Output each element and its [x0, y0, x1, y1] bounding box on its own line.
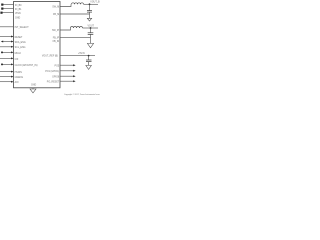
- inductor L2: [71, 27, 83, 28]
- wire NRST: [0, 36, 14, 38]
- wire GNENG: [0, 76, 14, 78]
- svg-text:VOUT_B: VOUT_B: [90, 2, 100, 4]
- svg-text:GND: GND: [15, 18, 20, 20]
- svg-text:AIO: AIO: [15, 81, 19, 84]
- wire cap C2 top: [90, 28, 92, 33]
- svg-text:GNENG: GNENG: [15, 77, 24, 79]
- svg-text:SCL_ENG: SCL_ENG: [15, 47, 26, 49]
- wire PO1: [60, 70, 76, 72]
- svg-text:CLKIN (GPIO/INT_IN): CLKIN (GPIO/INT_IN): [15, 65, 38, 67]
- svg-text:CIF: CIF: [15, 59, 19, 61]
- svg-text:+5V/N: +5V/N: [78, 53, 85, 55]
- wire BCLK: [0, 57, 14, 59]
- node VOUT: [90, 27, 92, 29]
- wire C3 to ground: [88, 62, 90, 66]
- wire GND stem: [32, 88, 34, 89]
- svg-text:FB_IN: FB_IN: [53, 41, 60, 43]
- ground G4: [30, 89, 36, 93]
- ground G1: [87, 18, 91, 21]
- svg-text:SW_M: SW_M: [52, 7, 59, 9]
- wire PO5: [60, 64, 76, 66]
- op-amp U1 (IC body): [14, 2, 61, 88]
- wire SCL: [0, 46, 14, 48]
- svg-text:MCLK: MCLK: [15, 53, 22, 55]
- node VOUT_REF: [88, 55, 90, 57]
- wire IN_B1: [1, 8, 13, 10]
- wire VOUT_B node: [84, 3, 99, 5]
- capacitor C3: [86, 60, 92, 62]
- wire VOUT node: [83, 27, 99, 29]
- wire SW2: [60, 28, 71, 30]
- wire VOUT_REF: [60, 55, 95, 57]
- wire GPIO6: [60, 75, 76, 77]
- ground G2: [87, 43, 93, 47]
- wire VINN: [0, 12, 13, 14]
- ground G3: [86, 65, 92, 69]
- svg-text:GND: GND: [31, 85, 36, 87]
- svg-text:HSDIN: HSDIN: [15, 72, 23, 74]
- svg-text:Copyright © 2017, Texas Instru: Copyright © 2017, Texas Instruments Inco…: [64, 93, 100, 96]
- capacitor C1: [87, 11, 92, 13]
- wire C2 to ground: [90, 34, 92, 43]
- svg-text:PO1 (GPIO1): PO1 (GPIO1): [45, 71, 59, 73]
- node VOUT_B: [89, 3, 91, 5]
- inductor L1: [72, 3, 84, 5]
- wire SDA (bidirectional): [1, 41, 14, 43]
- wire FB1: [60, 13, 90, 15]
- svg-text:IN_B0: IN_B0: [15, 5, 22, 7]
- capacitor C2: [88, 33, 94, 35]
- wire SW1: [60, 4, 71, 6]
- wire HSDIN: [0, 71, 14, 73]
- svg-text:SW_IP: SW_IP: [52, 30, 60, 32]
- wire cap C1 top: [89, 4, 91, 10]
- wire AIO: [0, 81, 14, 83]
- wire PO_RESET: [60, 80, 76, 82]
- svg-text:IN_B1: IN_B1: [15, 9, 22, 11]
- svg-text:SDA_ENG: SDA_ENG: [15, 41, 26, 44]
- svg-text:INT_SELECT: INT_SELECT: [15, 27, 30, 29]
- wire IN_B0: [1, 4, 13, 6]
- svg-text:VOUT_REF (B): VOUT_REF (B): [42, 56, 58, 58]
- wire MCLK: [1, 51, 14, 53]
- svg-text:PO5: PO5: [55, 65, 60, 67]
- svg-text:VOUT: VOUT: [88, 25, 95, 27]
- wire FB2: [60, 36, 91, 38]
- wire CLKIN: [1, 63, 14, 65]
- svg-text:FB_M: FB_M: [53, 14, 59, 16]
- wire cap C3 top: [88, 56, 90, 60]
- wire INT_SEL: [0, 26, 14, 28]
- svg-text:RESET: RESET: [15, 37, 23, 39]
- svg-text:PO_RESET: PO_RESET: [47, 81, 60, 83]
- svg-text:GPIO6: GPIO6: [52, 76, 60, 78]
- svg-text:FB_IP: FB_IP: [53, 37, 60, 39]
- wire C1 to ground: [89, 12, 91, 18]
- svg-text:VINN: VINN: [15, 13, 21, 15]
